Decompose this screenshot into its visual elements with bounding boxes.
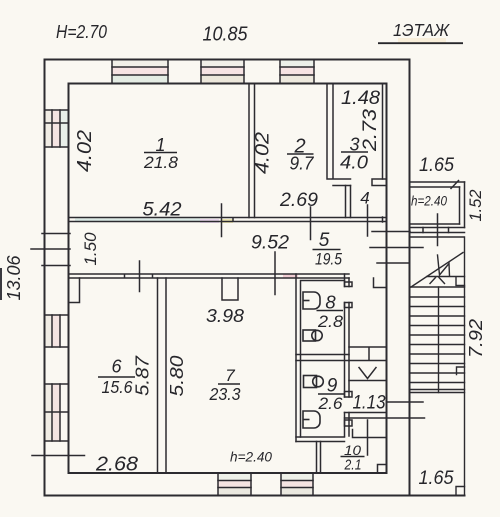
svg-text:4.02: 4.02 xyxy=(253,132,274,174)
svg-text:1ЭТАЖ: 1ЭТАЖ xyxy=(393,20,450,40)
svg-text:23.3: 23.3 xyxy=(209,384,241,404)
svg-text:13.06: 13.06 xyxy=(4,255,24,301)
svg-text:7.92: 7.92 xyxy=(466,319,486,358)
svg-text:5.80: 5.80 xyxy=(167,356,187,397)
svg-text:9.7: 9.7 xyxy=(290,154,315,174)
svg-text:4.02: 4.02 xyxy=(74,130,96,172)
svg-text:3: 3 xyxy=(349,135,359,155)
svg-text:19.5: 19.5 xyxy=(315,250,342,269)
svg-text:1: 1 xyxy=(155,135,165,155)
svg-text:2.6: 2.6 xyxy=(317,394,343,413)
svg-text:5: 5 xyxy=(319,230,330,251)
svg-text:10.85: 10.85 xyxy=(203,24,249,46)
svg-text:2.68: 2.68 xyxy=(95,454,138,476)
svg-text:2.1: 2.1 xyxy=(344,458,362,474)
svg-text:1.52: 1.52 xyxy=(466,189,485,222)
svg-text:6: 6 xyxy=(111,357,122,377)
svg-text:4: 4 xyxy=(360,189,369,208)
svg-text:1.50: 1.50 xyxy=(81,232,100,266)
svg-text:9.52: 9.52 xyxy=(251,233,289,254)
svg-text:h=2.40: h=2.40 xyxy=(411,193,447,209)
svg-text:1.65: 1.65 xyxy=(419,467,454,489)
svg-text:5.42: 5.42 xyxy=(143,200,182,221)
svg-text:8: 8 xyxy=(325,292,336,313)
svg-text:10: 10 xyxy=(344,442,361,458)
svg-text:1.13: 1.13 xyxy=(353,393,386,414)
svg-text:7: 7 xyxy=(225,366,235,385)
svg-text:h=2.40: h=2.40 xyxy=(230,449,272,465)
svg-text:15.6: 15.6 xyxy=(102,377,133,397)
svg-text:2.8: 2.8 xyxy=(317,312,344,331)
svg-text:21.8: 21.8 xyxy=(143,153,179,172)
svg-text:4.0: 4.0 xyxy=(340,153,368,173)
svg-text:3.98: 3.98 xyxy=(206,306,244,326)
svg-text:5.87: 5.87 xyxy=(133,355,153,396)
svg-text:1.65: 1.65 xyxy=(419,155,454,176)
svg-text:2.73: 2.73 xyxy=(360,109,381,153)
svg-text:1.48: 1.48 xyxy=(341,88,380,109)
svg-text:H=2.70: H=2.70 xyxy=(56,22,107,42)
svg-text:2.69: 2.69 xyxy=(279,190,318,211)
